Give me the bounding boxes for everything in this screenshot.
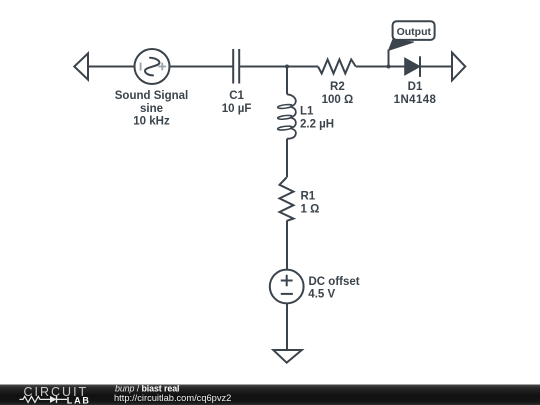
- wire node B to D1: [389, 66, 405, 68]
- svg-text:D1: D1: [408, 81, 423, 93]
- node A junction dot: [285, 65, 289, 69]
- inductor L1 coil arcs: [287, 94, 296, 138]
- footer bar: [0, 385, 540, 405]
- V1 minus mark: [140, 63, 142, 71]
- svg-text:100 Ω: 100 Ω: [322, 94, 354, 106]
- node B junction dot: [387, 65, 391, 69]
- wire input to source: [88, 66, 135, 68]
- wire source to C1: [170, 66, 234, 68]
- svg-text:DC offset: DC offset: [309, 276, 360, 288]
- svg-text:4.5 V: 4.5 V: [308, 289, 335, 301]
- svg-text:http://circuitlab.com/cq6pvz2: http://circuitlab.com/cq6pvz2: [114, 393, 231, 403]
- input terminal: [74, 53, 88, 79]
- wire node A down to L1: [286, 67, 288, 95]
- svg-text:Sound Signal: Sound Signal: [115, 90, 188, 102]
- capacitor C1 left plate: [232, 49, 234, 84]
- V1 plus mark: [158, 63, 166, 71]
- source V1 sine body: [135, 49, 170, 84]
- svg-text:R1: R1: [301, 190, 316, 202]
- wire D1 to output terminal: [420, 66, 452, 68]
- inductor L1 loop 2: [277, 115, 292, 120]
- Output flag pointer: [389, 40, 414, 51]
- inductor L1 loop 3: [277, 126, 292, 131]
- ground: [273, 350, 302, 363]
- wire C1 to node A: [239, 66, 287, 68]
- wire L1 to R1: [286, 139, 288, 178]
- footer logo diode bar: [56, 396, 58, 403]
- diode D1 cathode bar: [419, 56, 421, 77]
- svg-text:Output: Output: [397, 26, 432, 38]
- resistor R1: [280, 178, 294, 221]
- footer logo resistor squiggle and diode: [20, 396, 68, 402]
- wire R1 to V2: [286, 221, 288, 270]
- output terminal: [452, 53, 465, 81]
- inductor L1 loop 1: [277, 104, 292, 109]
- V2 minus mark: [281, 293, 293, 295]
- svg-text:sine: sine: [140, 103, 163, 115]
- V2 plus mark: [281, 275, 293, 287]
- wire V2 to ground: [286, 303, 288, 350]
- svg-text:10 kHz: 10 kHz: [133, 116, 170, 128]
- resistor R2: [318, 60, 356, 74]
- Output flag box: [393, 21, 435, 40]
- svg-text:R2: R2: [330, 81, 345, 93]
- Output flag stem wire: [388, 50, 390, 67]
- svg-text:2.2 µH: 2.2 µH: [300, 118, 334, 130]
- svg-text:1N4148: 1N4148: [394, 94, 437, 106]
- svg-text:10 µF: 10 µF: [222, 103, 252, 115]
- wire R2 to node B: [356, 66, 389, 68]
- V1 sine squiggle: [145, 58, 159, 76]
- wire node A to R2: [287, 66, 318, 68]
- svg-text:LAB: LAB: [67, 395, 91, 405]
- capacitor C1 right plate: [238, 49, 240, 84]
- svg-text:1 Ω: 1 Ω: [301, 204, 320, 216]
- source V2 DC offset body: [270, 270, 304, 304]
- svg-text:bunp / biast real: bunp / biast real: [115, 383, 179, 393]
- svg-text:C1: C1: [229, 90, 244, 102]
- svg-text:L1: L1: [300, 106, 314, 118]
- diode D1 triangle: [405, 58, 420, 75]
- footer logo diode triangle: [50, 396, 57, 403]
